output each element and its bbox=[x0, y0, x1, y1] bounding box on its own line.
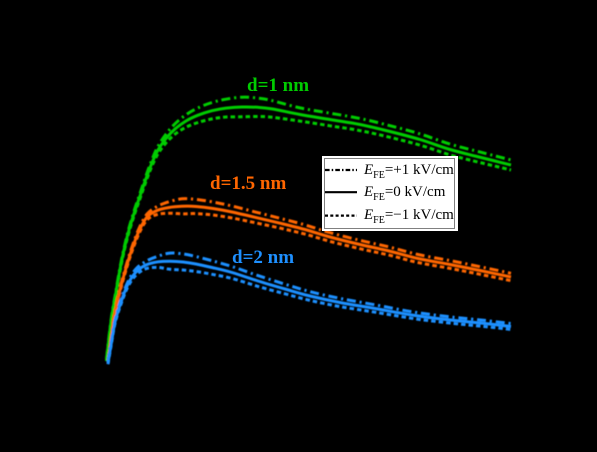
curve d=1.5 nm E_FE=-1 dashed bbox=[108, 213, 511, 363]
legend text row 1 bbox=[364, 161, 454, 181]
legend dashed sample bbox=[325, 215, 357, 217]
curve d=2 nm E_FE=+1 dash-dot bbox=[108, 253, 511, 362]
legend solid sample bbox=[325, 191, 357, 193]
label d=1.5 nm bbox=[210, 172, 286, 195]
legend border bbox=[324, 158, 455, 229]
curve d=1 nm E_FE=+1 dash-dot bbox=[107, 97, 512, 359]
legend text row 2 bbox=[364, 183, 445, 203]
curve d=1 nm E_FE=0 solid bbox=[107, 107, 512, 360]
curve d=1.5 nm E_FE=0 solid bbox=[108, 206, 511, 362]
label d=2 nm bbox=[232, 246, 294, 269]
legend box bbox=[322, 156, 458, 231]
label d=1 nm bbox=[247, 74, 309, 97]
curve d=2 nm E_FE=-1 dashed bbox=[108, 267, 511, 364]
curve d=1 nm E_FE=-1 dashed bbox=[107, 116, 512, 361]
legend dashdot sample bbox=[325, 169, 357, 171]
legend text row 3 bbox=[364, 206, 454, 226]
curve d=2 nm E_FE=0 solid bbox=[108, 261, 511, 363]
curve d=1.5 nm E_FE=+1 dash-dot bbox=[108, 199, 511, 361]
